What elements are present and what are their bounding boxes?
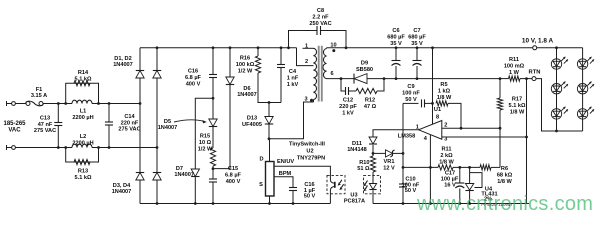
svg-text:2 kΩ: 2 kΩ <box>440 153 453 159</box>
svg-text:RTN: RTN <box>529 70 541 76</box>
svg-text:1N4007: 1N4007 <box>174 172 194 178</box>
svg-text:5.1 kΩ: 5.1 kΩ <box>509 103 526 109</box>
svg-text:1/8 W: 1/8 W <box>439 160 454 166</box>
svg-text:6.8 µF: 6.8 µF <box>185 75 202 81</box>
svg-text:220 pF: 220 pF <box>339 104 357 110</box>
svg-text:1 kΩ: 1 kΩ <box>438 89 451 95</box>
svg-text:1 W: 1 W <box>509 70 520 76</box>
svg-text:U1: U1 <box>434 107 441 113</box>
svg-text:47 nF: 47 nF <box>38 122 53 128</box>
svg-text:275 VAC: 275 VAC <box>118 127 140 133</box>
svg-text:S: S <box>259 182 263 188</box>
svg-text:C12: C12 <box>343 98 353 104</box>
svg-text:10 Ω: 10 Ω <box>199 140 212 146</box>
svg-text:2: 2 <box>444 122 447 128</box>
svg-text:R5: R5 <box>440 82 447 88</box>
svg-text:C14: C14 <box>124 114 135 120</box>
svg-text:D13: D13 <box>247 116 257 122</box>
svg-text:100 mΩ: 100 mΩ <box>504 64 525 70</box>
svg-text:2200 µH: 2200 µH <box>72 141 93 147</box>
svg-text:12 V: 12 V <box>383 166 395 172</box>
svg-text:250 VAC: 250 VAC <box>309 21 331 27</box>
svg-text:C6: C6 <box>392 28 399 34</box>
svg-text:10 V, 1.8 A: 10 V, 1.8 A <box>522 38 554 45</box>
svg-text:C13: C13 <box>40 116 50 122</box>
svg-text:100 nF: 100 nF <box>402 91 420 97</box>
svg-text:2200 µH: 2200 µH <box>72 115 93 121</box>
svg-text:R6: R6 <box>501 166 508 172</box>
svg-text:1/2 W: 1/2 W <box>198 147 213 153</box>
svg-text:R14: R14 <box>78 70 89 76</box>
svg-text:BPM: BPM <box>279 171 292 177</box>
svg-text:PC817A: PC817A <box>344 199 365 205</box>
svg-text:1: 1 <box>305 43 308 49</box>
svg-text:D: D <box>259 157 263 163</box>
svg-text:400 V: 400 V <box>186 82 201 88</box>
svg-text:1 kV: 1 kV <box>287 82 299 88</box>
svg-text:1N4007: 1N4007 <box>112 189 132 195</box>
svg-text:1 nF: 1 nF <box>287 76 299 82</box>
svg-text:47 Ω: 47 Ω <box>364 104 377 110</box>
svg-text:680 µF: 680 µF <box>387 35 405 41</box>
svg-text:R11: R11 <box>442 147 452 153</box>
svg-text:D9: D9 <box>361 61 368 67</box>
svg-text:C16: C16 <box>188 69 198 75</box>
svg-text:L2: L2 <box>80 134 87 140</box>
svg-text:VR1: VR1 <box>384 159 395 165</box>
svg-text:1N4007: 1N4007 <box>237 92 257 98</box>
svg-text:50 V: 50 V <box>405 188 417 194</box>
svg-text:TinySwitch-III: TinySwitch-III <box>289 142 325 148</box>
svg-text:SB580: SB580 <box>356 67 373 73</box>
svg-text:TNY279PN: TNY279PN <box>297 156 325 162</box>
svg-text:50 V: 50 V <box>405 97 417 103</box>
svg-text:6: 6 <box>330 71 333 77</box>
svg-text:1 kV: 1 kV <box>342 111 354 117</box>
svg-text:LM358: LM358 <box>398 133 415 139</box>
svg-text:35 V: 35 V <box>390 41 402 47</box>
svg-text:16 V: 16 V <box>444 182 456 188</box>
svg-text:5.1 kΩ: 5.1 kΩ <box>75 77 92 83</box>
svg-text:1N4007: 1N4007 <box>113 62 133 68</box>
svg-text:L1: L1 <box>80 109 87 115</box>
svg-text:275 VAC: 275 VAC <box>34 128 56 134</box>
svg-text:400 V: 400 V <box>226 179 241 185</box>
svg-text:185-265: 185-265 <box>3 121 26 127</box>
svg-text:51 Ω: 51 Ω <box>357 166 370 172</box>
svg-text:5.1 kΩ: 5.1 kΩ <box>75 175 92 181</box>
svg-text:C4: C4 <box>289 69 297 75</box>
svg-text:U2: U2 <box>306 149 313 155</box>
svg-text:8: 8 <box>436 114 439 120</box>
svg-text:EN/UV: EN/UV <box>277 159 294 165</box>
svg-text:2: 2 <box>305 59 308 65</box>
svg-text:220 nF: 220 nF <box>121 120 139 126</box>
svg-text:C7: C7 <box>413 28 420 34</box>
svg-text:1/8 W: 1/8 W <box>437 95 452 101</box>
svg-text:1N4007: 1N4007 <box>158 125 178 131</box>
svg-text:R12: R12 <box>365 98 375 104</box>
svg-text:50 V: 50 V <box>304 193 316 199</box>
svg-text:100 kΩ: 100 kΩ <box>236 62 255 68</box>
svg-text:2.2 nF: 2.2 nF <box>312 15 329 21</box>
svg-text:R15: R15 <box>200 134 210 140</box>
svg-text:680 µF: 680 µF <box>408 35 426 41</box>
svg-text:R13: R13 <box>78 169 88 175</box>
svg-text:3.15 A: 3.15 A <box>31 93 47 99</box>
svg-text:68 kΩ: 68 kΩ <box>497 173 513 179</box>
svg-text:C8: C8 <box>317 8 324 14</box>
svg-text:R16: R16 <box>240 56 250 62</box>
svg-text:35 V: 35 V <box>411 41 423 47</box>
svg-text:1/8 W: 1/8 W <box>497 179 512 185</box>
svg-text:6.8 µF: 6.8 µF <box>225 173 242 179</box>
svg-text:UF4005: UF4005 <box>242 122 262 128</box>
svg-text:R11: R11 <box>509 57 519 63</box>
svg-text:C9: C9 <box>407 84 414 90</box>
svg-text:PI-4820-120907: PI-4820-120907 <box>481 202 513 207</box>
svg-text:1/2 W: 1/2 W <box>238 69 253 75</box>
svg-text:3: 3 <box>304 97 307 103</box>
svg-text:1/8 W: 1/8 W <box>510 110 525 116</box>
svg-text:VAC: VAC <box>8 127 21 133</box>
svg-text:R17: R17 <box>512 97 522 103</box>
svg-text:1N4148: 1N4148 <box>347 147 367 153</box>
